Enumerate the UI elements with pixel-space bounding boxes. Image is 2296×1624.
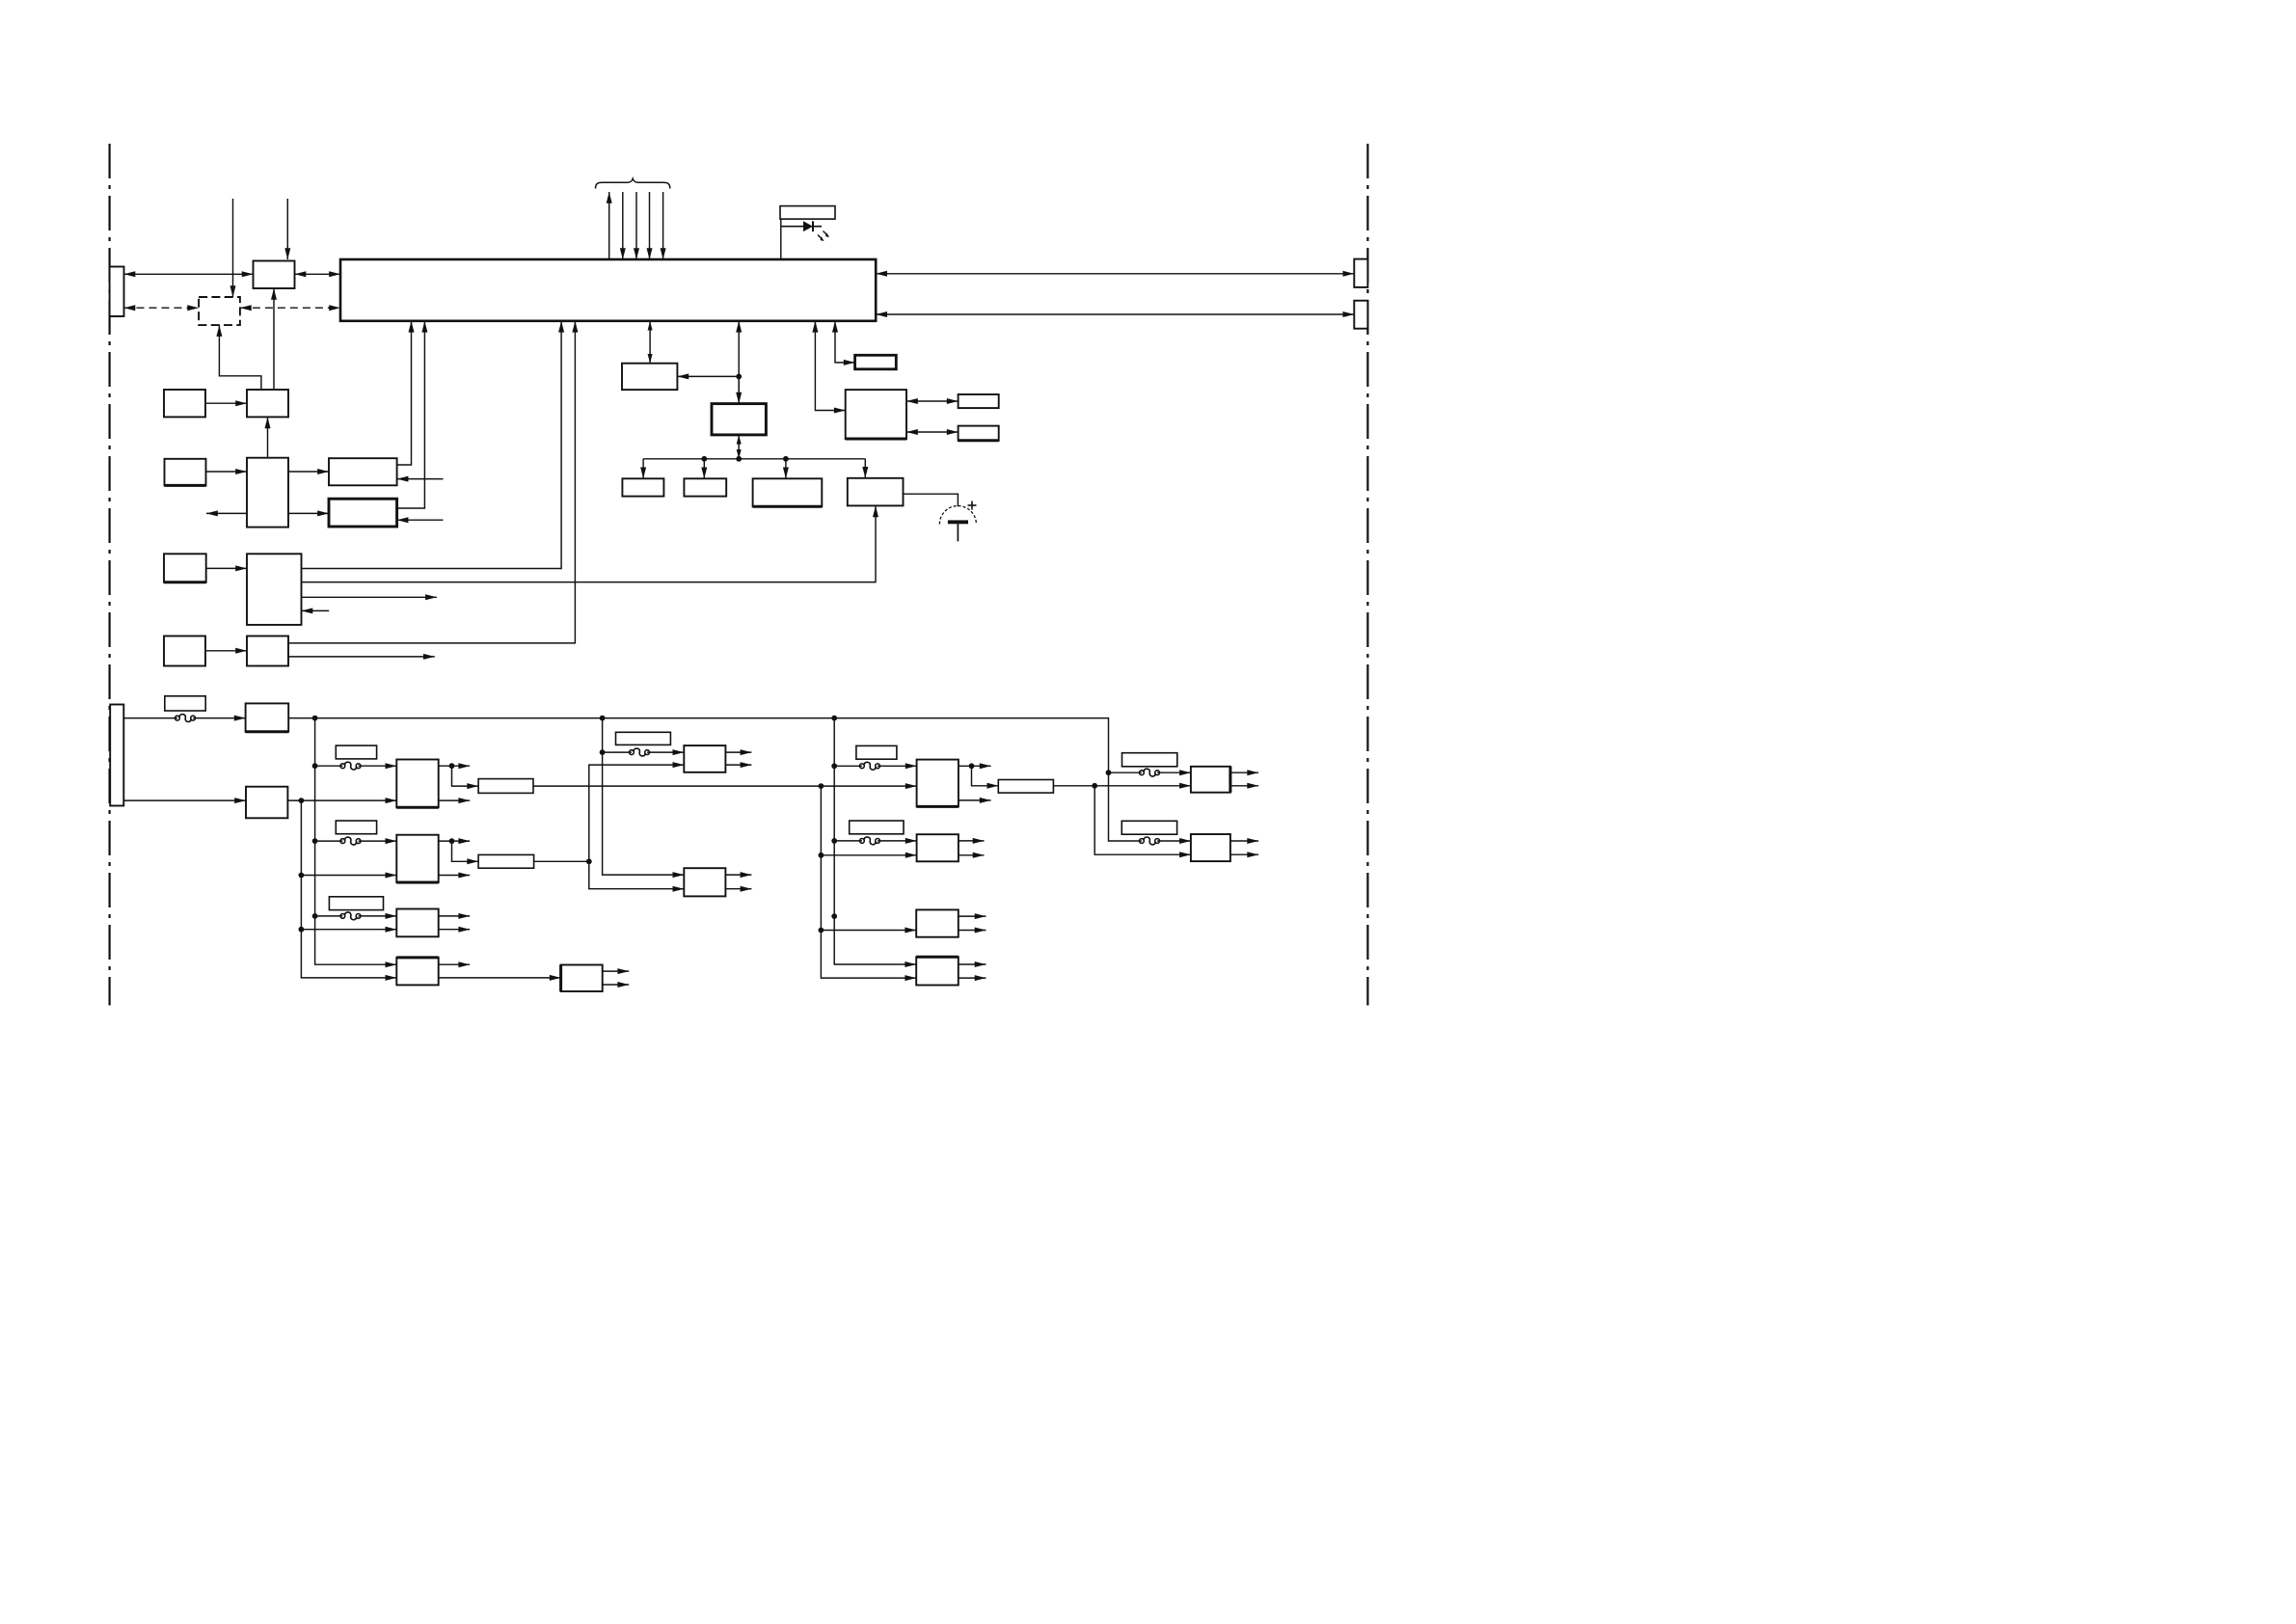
wire U10-U1 (up) bbox=[288, 321, 578, 643]
PS12 out lower bbox=[1230, 852, 1258, 857]
block U12 (power manager) bbox=[712, 404, 766, 435]
junction PS1 out bbox=[449, 763, 455, 769]
block PS9 (DC/DC 9) bbox=[916, 909, 959, 936]
block U9 (key scan) bbox=[247, 554, 302, 625]
wire U1-U12 vertical bbox=[736, 321, 742, 404]
block U4a (crystal) bbox=[164, 390, 205, 417]
stub into U8 bbox=[397, 517, 444, 523]
junction C1-B r2 bbox=[299, 873, 305, 879]
PS10 out lower bbox=[959, 975, 986, 981]
wire PS7 to LDO3 bbox=[972, 766, 999, 789]
rail LDO1 to C3 bbox=[533, 783, 917, 789]
rail LDO2 to C2 bbox=[534, 860, 589, 862]
PS3 out upper bbox=[439, 913, 471, 919]
block U4 (clock gen) bbox=[247, 390, 288, 417]
wire U10a-U10 bbox=[205, 648, 247, 654]
label box F1 bbox=[336, 745, 376, 759]
PS11 out lower bbox=[1230, 783, 1258, 789]
dashed option block U3 bbox=[199, 297, 240, 325]
wire C1 fuse row1 a bbox=[315, 765, 343, 767]
block U11 (RTC) bbox=[622, 364, 677, 390]
port arrow down 2 bbox=[620, 192, 626, 259]
wire input to U2 top bbox=[284, 199, 290, 259]
LED D1 bbox=[781, 221, 829, 241]
block PS3 (DC/DC 3) bbox=[396, 909, 438, 937]
block PS12 (DC/DC 12) bbox=[1191, 834, 1230, 861]
wire PS1 to LDO1 bbox=[452, 766, 479, 789]
wire U6a-U6 bbox=[206, 469, 248, 474]
junction node bbox=[736, 374, 742, 380]
port arrow down 3 bbox=[634, 192, 639, 259]
wire C3-B to R2 bbox=[821, 853, 916, 858]
PS12 out upper bbox=[1230, 838, 1258, 844]
PS4 out upper bbox=[439, 961, 471, 967]
junction row1 c1 bbox=[312, 716, 318, 721]
block U14 (audio codec) bbox=[846, 390, 906, 439]
PS8 out lower bbox=[959, 853, 985, 858]
rail LDO3 to C4 bbox=[1053, 783, 1191, 789]
feed line C2-A bbox=[603, 718, 685, 879]
junction row1 c4 bbox=[1106, 770, 1112, 775]
wire C3-B to R3 bbox=[821, 928, 916, 934]
block P1 (regulator) bbox=[622, 478, 663, 496]
feed line C1-B bbox=[301, 800, 396, 981]
label box F4 bbox=[616, 732, 671, 744]
wire C2 fuse row a bbox=[603, 751, 632, 753]
junction row1 c3 bbox=[831, 716, 837, 721]
junction node rail b bbox=[783, 456, 789, 462]
wire J1-U2 (bidirectional) bbox=[124, 271, 254, 277]
block P2 (regulator) bbox=[684, 478, 726, 496]
PS1 out lower bbox=[439, 798, 471, 803]
wire U2-U1 (bidirectional) bbox=[295, 271, 341, 277]
wire U6-U8 bbox=[288, 510, 329, 516]
connector J4 (right lower) bbox=[1354, 301, 1367, 329]
wire C3 fuse row1 b bbox=[878, 763, 917, 769]
junction row1 c2 bbox=[600, 716, 606, 721]
block PS6 (DC/DC 6) bbox=[684, 868, 725, 896]
fuse F2 bbox=[340, 837, 361, 845]
port arrow up 1 bbox=[607, 192, 612, 259]
junction C1-A r2 bbox=[312, 838, 318, 844]
block U8 (RAM) bbox=[329, 499, 397, 527]
block B1 (filter) bbox=[246, 703, 289, 731]
block U15 (jack L) bbox=[959, 394, 999, 408]
wire U14-U15 (bidirectional) bbox=[906, 398, 959, 404]
wire U6-U7 bbox=[288, 469, 329, 474]
wire node-U11 bbox=[677, 373, 739, 379]
wire U4a-U4 bbox=[205, 400, 247, 406]
block U10a (encoder) bbox=[164, 636, 205, 666]
block LDO3 bbox=[998, 780, 1053, 794]
PS3 out lower bbox=[439, 927, 471, 933]
connector J1 (left top) bbox=[110, 267, 124, 317]
junction C2-A r1 bbox=[600, 749, 606, 755]
wire U7-U1 bbox=[397, 321, 415, 465]
power rail row2 bbox=[287, 798, 396, 803]
block U6a (crystal 2) bbox=[165, 459, 206, 486]
board boundary dash-dot line (right) bbox=[1366, 144, 1368, 1006]
block PS5 (DC/DC 5) bbox=[684, 745, 725, 772]
wire C2 fuse row b bbox=[647, 749, 684, 755]
label box F8 bbox=[1121, 821, 1176, 834]
drop to P1 bbox=[640, 459, 646, 479]
brace (signal group) bbox=[596, 178, 670, 188]
block P4 (charger) bbox=[848, 478, 904, 506]
wire J2 row2 to B2 bbox=[123, 798, 246, 803]
block PS1 (DC/DC 1) bbox=[396, 760, 438, 808]
junction PS7 out bbox=[969, 763, 975, 769]
fuse F4 bbox=[630, 748, 650, 756]
board boundary dash-dot line (left) bbox=[108, 144, 110, 1006]
wire input to U3 top bbox=[230, 199, 236, 297]
junction C3-A r1 bbox=[831, 763, 837, 769]
junction C1-A r1 bbox=[312, 763, 318, 769]
label box F6 bbox=[850, 821, 904, 834]
stub into U9 bbox=[302, 608, 330, 613]
PS9 out upper bbox=[959, 913, 986, 919]
M1 out upper bbox=[603, 968, 630, 974]
wire U6-U4 (up) bbox=[265, 417, 271, 457]
port arrow down 4 bbox=[647, 192, 653, 259]
wire U9-U1 (up) bbox=[302, 321, 565, 569]
junction C1-B r3 bbox=[299, 927, 305, 933]
wire C4 fuse row2 b bbox=[1157, 838, 1191, 844]
label box F7 bbox=[1122, 753, 1177, 767]
wire U1-U13 (IR) bbox=[832, 321, 855, 365]
junction row2 bbox=[299, 798, 305, 803]
PS11 out upper bbox=[1230, 770, 1258, 775]
stub into U7 bbox=[397, 476, 444, 482]
block U10 (encoder IF) bbox=[247, 636, 288, 666]
PS2 out lower bbox=[439, 873, 471, 879]
block PS4 (DC/DC 4) bbox=[396, 958, 438, 986]
wire P4-battery bbox=[904, 494, 959, 506]
wire U4-U2 (up) bbox=[271, 288, 277, 390]
wire C1 fuse row1 b bbox=[359, 763, 397, 769]
PS5 out upper bbox=[725, 749, 751, 755]
PS1 out upper bbox=[439, 763, 471, 769]
wire fuse to B1 bbox=[193, 716, 246, 721]
block B2 (filter 2) bbox=[246, 787, 287, 819]
label box F5 bbox=[856, 745, 897, 759]
drop to P4 bbox=[862, 459, 868, 478]
block U16 (jack R) bbox=[959, 426, 999, 441]
fuse F0 bbox=[176, 715, 196, 722]
power rail row1 (to cluster feeds) bbox=[288, 718, 1142, 841]
wire U9 out right bbox=[302, 594, 437, 600]
wire PS4 to M1 bbox=[439, 975, 561, 981]
wire J2 row1 to fuse bbox=[123, 717, 177, 719]
feed line C3-A bbox=[834, 718, 916, 967]
label box F3 bbox=[329, 897, 383, 910]
block PS11 (DC/DC 11) bbox=[1191, 767, 1230, 793]
label box (LED block) bbox=[780, 206, 835, 220]
junction rail LDO1 bbox=[819, 783, 824, 789]
wire PS2 to LDO2 bbox=[452, 841, 479, 864]
PS8 out upper bbox=[959, 838, 985, 844]
drop to P2 bbox=[701, 459, 707, 479]
block U6 (clock divider) bbox=[247, 458, 288, 528]
feed line C1-A bbox=[315, 718, 397, 968]
wire U9a-U9 bbox=[206, 565, 247, 571]
PS5 out lower bbox=[725, 762, 751, 768]
fuse F1 bbox=[340, 762, 361, 770]
wire U8-U1 bbox=[397, 321, 428, 508]
label box F0 (fuse label) bbox=[165, 696, 205, 711]
block PS7 (DC/DC 7) bbox=[917, 760, 959, 807]
connector J2 (left bottom) bbox=[110, 705, 123, 806]
drop to P3 bbox=[783, 459, 789, 479]
PS6 out upper bbox=[725, 872, 751, 878]
feed line C3-B bbox=[821, 786, 916, 981]
dashed wire J1-U3 (bidirectional) bbox=[124, 305, 200, 311]
junction C3-B r2 bbox=[819, 853, 824, 858]
wire U1-U14 (codec select) bbox=[812, 321, 845, 414]
PS9 out lower bbox=[959, 928, 986, 934]
block M1 (inverter) bbox=[561, 965, 603, 992]
wire C1 fuse row3 b bbox=[359, 913, 397, 919]
wire C4 fuse row1 b bbox=[1157, 770, 1191, 775]
wire U9 long to P4 (power good) bbox=[302, 505, 879, 582]
fuse F3 bbox=[340, 912, 361, 920]
PS6 out lower bbox=[725, 886, 751, 892]
junction C3-A r2 bbox=[831, 838, 837, 844]
block U7 (ROM) bbox=[329, 458, 397, 485]
block PS2 (DC/DC 2) bbox=[396, 835, 438, 882]
port arrow down 5 bbox=[661, 192, 666, 259]
block PS10 (DC/DC 10) bbox=[916, 957, 959, 985]
block U13 (IR receiver) bbox=[855, 355, 897, 369]
junction node rail a bbox=[701, 456, 707, 462]
feed line C2-B up bbox=[589, 762, 685, 861]
battery BT1 bbox=[939, 501, 976, 542]
wire C3 fuse row2 a bbox=[834, 840, 862, 842]
bus U1-J3 (bidirectional) bbox=[876, 271, 1354, 277]
wire C1 fuse row3 a bbox=[315, 915, 343, 917]
feed line C2-B down bbox=[589, 861, 685, 891]
junction rail LDO3 bbox=[1092, 783, 1097, 789]
PS10 out upper bbox=[959, 961, 986, 967]
connector J3 (right upper) bbox=[1354, 259, 1367, 287]
wire U10 out right bbox=[288, 654, 435, 660]
wire LED block to U1 top bbox=[780, 219, 782, 259]
wire C1-B to R2 bbox=[301, 873, 396, 879]
junction rail LDO2 bbox=[586, 858, 592, 864]
PS7 out upper bbox=[959, 763, 991, 769]
arrow into U12 top bbox=[736, 376, 742, 403]
wire U1-U11 (bidirectional) bbox=[648, 321, 653, 364]
wire C1 fuse row2 b bbox=[359, 838, 397, 844]
wire U14-U16 (bidirectional) bbox=[906, 429, 959, 435]
wire U5-U3 (up) bbox=[216, 325, 261, 390]
wire C1-B to R3 bbox=[301, 927, 396, 933]
block LDO1 bbox=[478, 779, 533, 794]
feed drop C4-B bbox=[1094, 786, 1191, 857]
junction C1-A r3 bbox=[312, 913, 318, 919]
PS7 out lower bbox=[959, 798, 991, 803]
junction node rail centre bbox=[736, 456, 742, 462]
bus U1-J4 (bidirectional) bbox=[876, 311, 1354, 317]
wire U12-rail (bidirectional) bbox=[737, 435, 742, 459]
fuse F7 bbox=[1140, 769, 1160, 776]
block LDO2 bbox=[478, 854, 533, 868]
junction C3-A r3 bbox=[831, 913, 837, 919]
wire C3 fuse row1 a bbox=[834, 765, 862, 767]
junction PS2 out bbox=[449, 838, 455, 844]
PS2 out upper bbox=[439, 838, 471, 844]
main IC U1 (system controller) bbox=[340, 259, 876, 321]
dashed wire U3-U1 (bidirectional) bbox=[240, 305, 340, 311]
M1 out lower bbox=[603, 982, 630, 988]
block U9a (key matrix in) bbox=[164, 554, 206, 582]
power rail distribution line bbox=[643, 458, 865, 460]
wire C4 fuse row1 a bbox=[1109, 771, 1142, 773]
block PS8 (DC/DC 8) bbox=[917, 834, 959, 861]
fuse F8 bbox=[1140, 837, 1160, 845]
wire C1 fuse row2 a bbox=[315, 840, 343, 842]
junction C3-B r3 bbox=[819, 928, 824, 934]
block U2 (reset IC) bbox=[254, 261, 295, 289]
label box F2 bbox=[336, 821, 376, 834]
fuse F5 bbox=[860, 762, 880, 770]
wire U6 out left bbox=[206, 510, 247, 516]
fuse F6 bbox=[860, 837, 880, 845]
wire C3 fuse row2 b bbox=[878, 838, 917, 844]
block P3 (regulator) bbox=[753, 478, 823, 506]
